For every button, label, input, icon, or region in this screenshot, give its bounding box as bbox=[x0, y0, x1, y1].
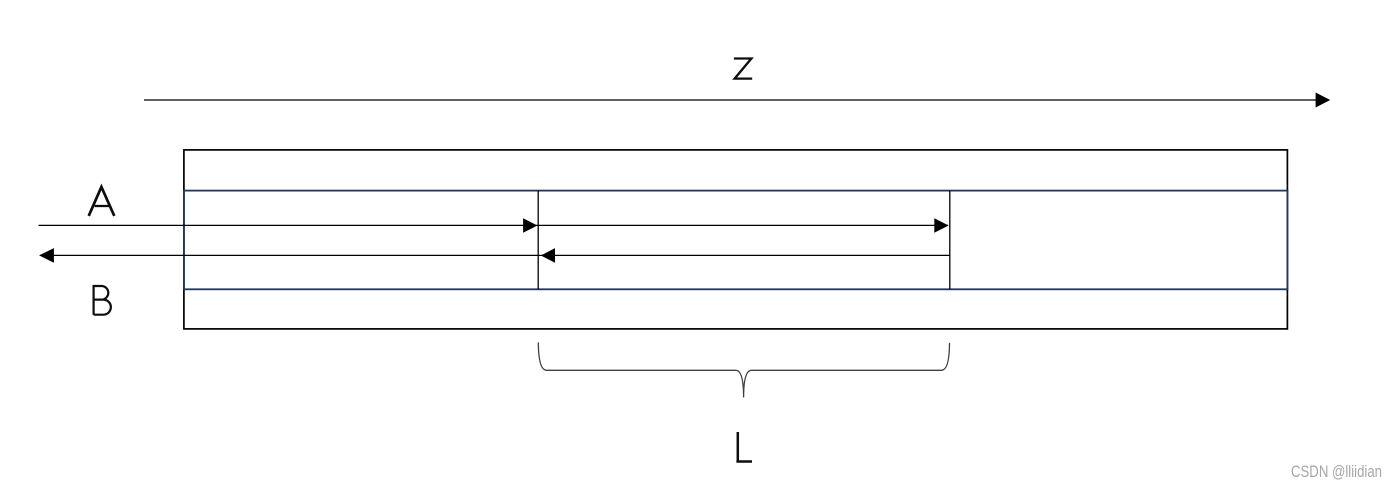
node label A bbox=[89, 187, 115, 216]
node underbrace for grating length bbox=[538, 343, 949, 398]
node arrowhead A at grating entrance bbox=[523, 218, 537, 233]
node fiber core band bbox=[184, 191, 1288, 290]
node arrowhead A at grating exit bbox=[934, 218, 948, 233]
node arrowhead B at left end bbox=[39, 248, 54, 263]
wire backward wave B line bbox=[40, 254, 950, 256]
wire forward wave A line bbox=[39, 224, 949, 226]
node waveguide outer rectangle bbox=[184, 150, 1288, 329]
node z-axis arrowhead bbox=[1316, 93, 1331, 108]
node label L bbox=[736, 432, 752, 462]
svg-text:CSDN @lliidian: CSDN @lliidian bbox=[1291, 463, 1382, 481]
node label z bbox=[734, 59, 752, 79]
wire grating right boundary bbox=[949, 191, 951, 290]
wire grating left boundary bbox=[537, 191, 539, 290]
node label B bbox=[94, 286, 111, 315]
wire z-axis line bbox=[144, 99, 1317, 101]
node arrowhead B at grating entrance bbox=[541, 248, 555, 263]
